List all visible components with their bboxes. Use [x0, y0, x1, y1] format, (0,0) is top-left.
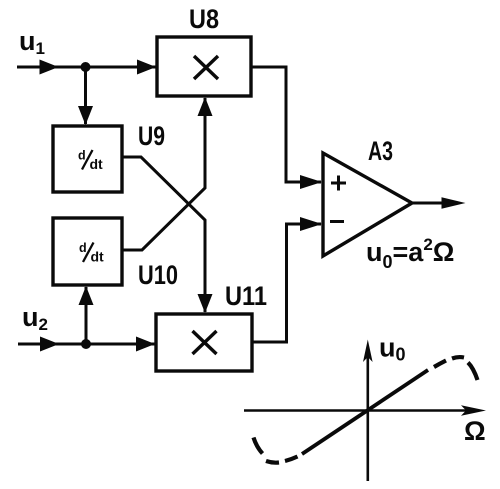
differentiator U9 [53, 126, 122, 192]
arrowhead into U8 bottom [198, 97, 213, 116]
svg-text:dt: dt [90, 156, 104, 172]
svg-text:A3: A3 [368, 136, 393, 166]
arrowhead into U10 bottom [79, 286, 94, 305]
wire input u2 [18, 343, 156, 346]
svg-text:U11: U11 [225, 281, 267, 311]
graph vertical axis u0 [366, 355, 369, 481]
graph dashed curve upper right dash 1 [434, 361, 446, 368]
arrowhead into U9 top [78, 106, 93, 125]
arrowhead A3 output [442, 197, 466, 208]
arrowhead into U11 input [136, 337, 155, 352]
svg-text:d: d [79, 241, 87, 255]
multiplier U8 [157, 37, 251, 96]
svg-text:d: d [78, 149, 86, 163]
arrowhead into A3 plus [300, 175, 322, 189]
graph solid line [302, 370, 428, 454]
svg-text:Ω: Ω [464, 416, 486, 446]
arrowhead on u2 wire [40, 337, 59, 352]
graph dashed curve upper right dash 2 [452, 357, 464, 358]
graph dashed curve lower left dash 3 [254, 438, 263, 454]
arrowhead into A3 minus [300, 217, 322, 231]
wire U11 output to A3 minus input [252, 224, 321, 342]
junction dot on u2 wire [81, 339, 91, 349]
arrowhead into U11 top [198, 294, 213, 313]
arrowhead graph horizontal axis [461, 405, 486, 416]
svg-text:u0=a2Ω: u0=a2Ω [366, 235, 454, 272]
wire U10 output to U8 (cross) [122, 98, 205, 250]
junction dot on u1 wire [81, 62, 91, 72]
graph dashed curve lower left dash 1 [285, 457, 298, 462]
svg-text:U8: U8 [189, 4, 219, 34]
wire input u1 [17, 66, 157, 69]
multiplier U11 [156, 314, 252, 371]
graph horizontal axis Omega [244, 409, 470, 412]
wire A3 output [412, 202, 448, 205]
svg-text:U10: U10 [138, 260, 178, 290]
svg-text:dt: dt [91, 249, 105, 265]
wire junction to U10 [85, 287, 88, 344]
wire U8 output to A3 plus input [251, 67, 321, 182]
wire U9 output to U11 (cross) [122, 157, 205, 312]
wire junction to U9 [84, 67, 87, 124]
op-amp A3 [323, 153, 412, 256]
svg-text:U9: U9 [138, 121, 165, 151]
arrowhead graph vertical axis [363, 340, 373, 363]
arrowhead into U8 input [137, 60, 156, 75]
graph dashed curve lower left dash 2 [266, 461, 279, 463]
differentiator U10 [53, 218, 122, 285]
graph dashed curve upper right dash 3 [468, 363, 478, 381]
arrowhead on u1 wire [40, 60, 59, 75]
